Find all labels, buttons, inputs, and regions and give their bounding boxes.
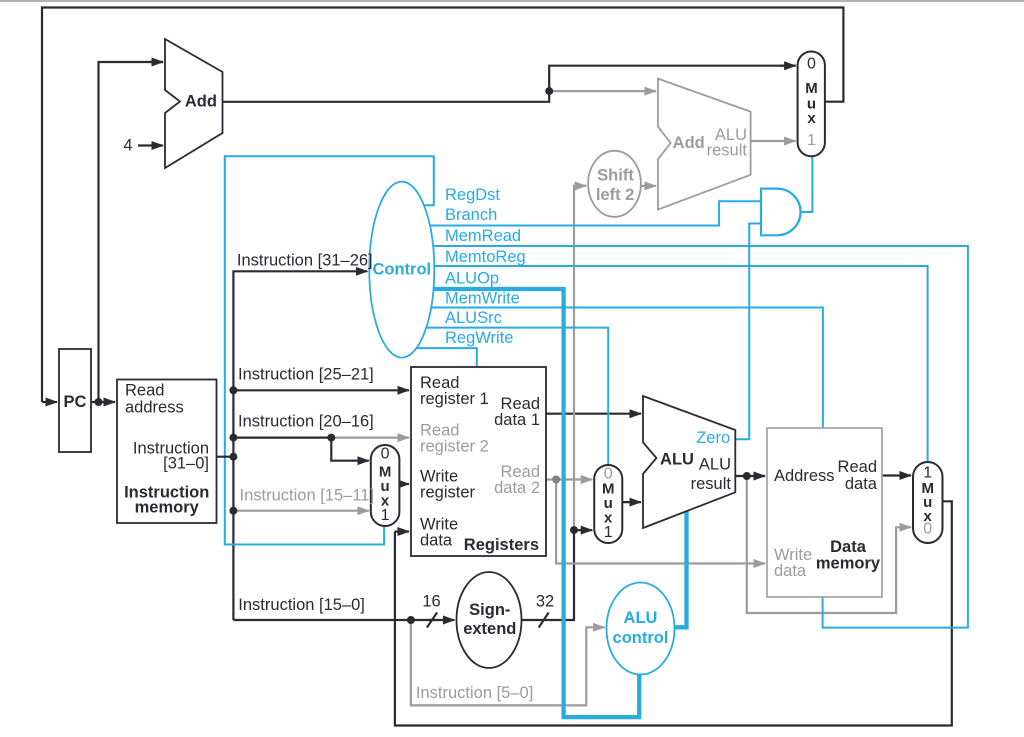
- svg-text:Add: Add: [673, 134, 705, 152]
- svg-text:data 1: data 1: [494, 411, 540, 429]
- svg-text:data: data: [420, 532, 453, 550]
- svg-text:Sign-: Sign-: [469, 601, 510, 619]
- svg-text:Instruction [15–0]: Instruction [15–0]: [238, 596, 365, 614]
- svg-text:MemtoReg: MemtoReg: [445, 248, 526, 266]
- svg-text:result: result: [691, 475, 732, 493]
- svg-text:ALU: ALU: [660, 451, 694, 469]
- svg-text:Branch: Branch: [445, 206, 497, 224]
- svg-text:0: 0: [807, 55, 816, 72]
- svg-text:[31–0]: [31–0]: [163, 455, 209, 473]
- svg-text:0: 0: [381, 446, 390, 463]
- svg-text:ALUSrc: ALUSrc: [445, 309, 502, 327]
- svg-text:register 1: register 1: [420, 390, 489, 408]
- svg-text:Shift: Shift: [597, 166, 634, 184]
- svg-text:1: 1: [604, 524, 613, 541]
- svg-text:Zero: Zero: [696, 429, 730, 447]
- svg-text:Registers: Registers: [464, 536, 539, 554]
- svg-text:Instruction [15–11]: Instruction [15–11]: [240, 486, 375, 504]
- svg-text:register 2: register 2: [420, 438, 489, 456]
- svg-text:result: result: [707, 141, 748, 159]
- svg-text:address: address: [125, 399, 184, 417]
- svg-text:MemRead: MemRead: [445, 227, 521, 245]
- svg-text:PC: PC: [64, 393, 87, 411]
- svg-text:extend: extend: [463, 620, 516, 638]
- svg-text:Address: Address: [774, 467, 835, 485]
- svg-text:1: 1: [381, 507, 390, 524]
- svg-text:Instruction [5–0]: Instruction [5–0]: [416, 684, 533, 702]
- svg-text:Control: Control: [372, 261, 431, 279]
- svg-text:data 2: data 2: [494, 479, 540, 497]
- svg-text:left 2: left 2: [596, 186, 635, 204]
- svg-text:Read: Read: [125, 382, 164, 400]
- svg-text:MemWrite: MemWrite: [445, 289, 520, 307]
- svg-text:RegWrite: RegWrite: [445, 329, 513, 347]
- svg-text:x: x: [807, 110, 816, 127]
- svg-text:data: data: [845, 475, 878, 493]
- svg-text:32: 32: [536, 593, 554, 611]
- svg-text:memory: memory: [816, 555, 881, 573]
- svg-text:Instruction [25–21]: Instruction [25–21]: [238, 366, 374, 384]
- svg-text:Instruction [20–16]: Instruction [20–16]: [238, 413, 374, 431]
- svg-text:RegDst: RegDst: [445, 186, 500, 204]
- svg-text:data: data: [774, 562, 807, 580]
- svg-text:1: 1: [807, 132, 816, 149]
- svg-text:ALUOp: ALUOp: [445, 269, 499, 287]
- svg-text:Instruction [31–26]: Instruction [31–26]: [237, 252, 373, 270]
- svg-text:Read: Read: [838, 458, 877, 476]
- svg-text:ALU: ALU: [699, 456, 731, 474]
- svg-text:4: 4: [123, 137, 132, 155]
- svg-text:Data: Data: [830, 538, 867, 556]
- svg-text:M: M: [805, 80, 818, 97]
- svg-text:control: control: [613, 629, 669, 647]
- svg-text:16: 16: [422, 593, 440, 611]
- svg-text:ALU: ALU: [624, 609, 658, 627]
- svg-text:register: register: [420, 484, 476, 502]
- svg-text:memory: memory: [135, 499, 200, 517]
- svg-text:0: 0: [923, 521, 932, 538]
- svg-text:Add: Add: [185, 93, 217, 111]
